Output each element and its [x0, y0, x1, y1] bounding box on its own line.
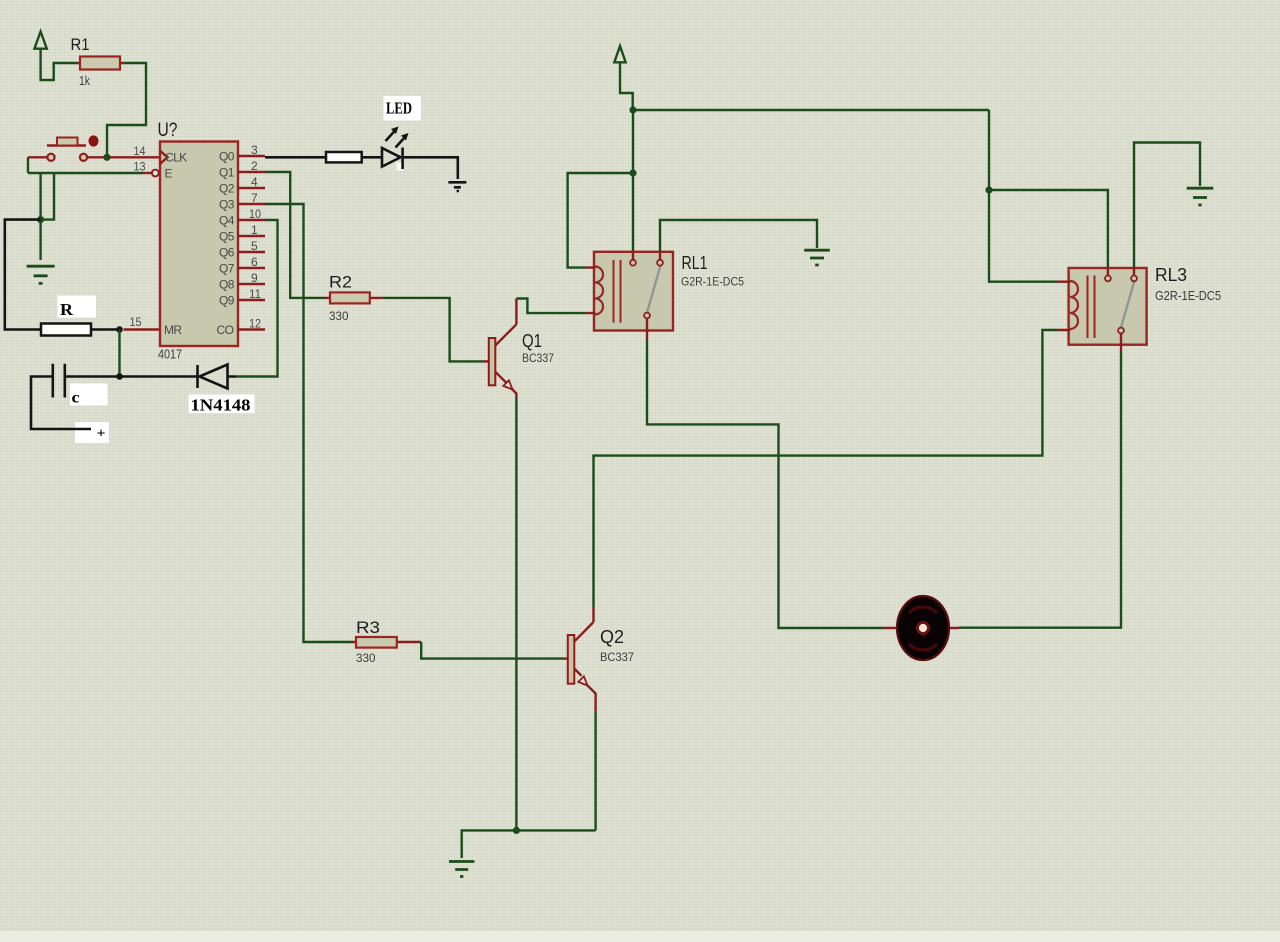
wire E stub — [143, 172, 152, 174]
wire Q2 emitter down — [594, 712, 596, 830]
resistor (LED series) — [326, 152, 362, 162]
wire to RL3 contact — [989, 190, 1108, 268]
wire RL3 coil bottom to Q2 collector — [594, 330, 1059, 607]
node junction cap/diode — [116, 373, 123, 380]
wire RL1 common to motor — [647, 339, 883, 628]
pin Q2 name — [219, 182, 235, 196]
svg-text:BC337: BC337 — [600, 650, 634, 664]
power symbol P2 (+V arrow) — [614, 46, 632, 110]
pin MR name — [164, 323, 182, 337]
pin CO name — [217, 323, 234, 337]
push button SW1 — [28, 138, 107, 161]
relay RL1 G2R-1E-DC5 — [585, 252, 744, 339]
pin CLK name — [165, 151, 187, 165]
LED D2 — [382, 127, 409, 171]
svg-text:LED: LED — [386, 99, 412, 118]
pin number 6 — [251, 255, 258, 269]
svg-text:10: 10 — [249, 207, 261, 221]
svg-text:1N4148: 1N4148 — [191, 396, 251, 415]
svg-text:6: 6 — [251, 255, 258, 269]
wire MR junction down to cap junction — [118, 330, 120, 377]
label R — [60, 300, 74, 319]
wire CLK pin 14 — [107, 156, 160, 158]
pin Q1 name — [219, 166, 235, 180]
node junction R/MR — [116, 326, 123, 333]
pin Q4 name — [219, 214, 235, 228]
pin number 12 — [249, 317, 261, 331]
pin Q9 name — [219, 294, 235, 308]
svg-text:G2R-1E-DC5: G2R-1E-DC5 — [1155, 289, 1221, 303]
ground (LED, black) — [448, 182, 466, 191]
resistor R2 — [265, 172, 383, 323]
label box + — [75, 422, 109, 443]
svg-text:13: 13 — [134, 160, 146, 174]
transistor Q1 BC337 — [484, 299, 555, 398]
svg-text:CO: CO — [217, 323, 234, 337]
resistor R3 — [265, 204, 421, 665]
pin number 1 — [251, 223, 258, 237]
relay RL3 G2R-1E-DC5 — [1058, 265, 1221, 351]
pin number 13 — [134, 160, 146, 174]
label LED — [386, 99, 412, 118]
svg-text:Q1: Q1 — [219, 166, 235, 180]
svg-text:2: 2 — [251, 159, 258, 173]
pin E name — [165, 167, 173, 181]
svg-text:MR: MR — [164, 323, 182, 337]
label box 1N4148 — [189, 395, 255, 414]
svg-text:12: 12 — [249, 317, 261, 331]
svg-text:CLK: CLK — [165, 151, 187, 165]
svg-text:330: 330 — [329, 309, 349, 323]
wire R3 to Q2 base — [421, 642, 564, 659]
label 1N4148 — [191, 396, 251, 415]
capacitor C — [31, 364, 120, 429]
svg-text:R2: R2 — [329, 273, 352, 292]
pin Q8 name — [219, 278, 235, 292]
wire R2 to Q1 base — [383, 298, 484, 362]
svg-text:U?: U? — [158, 120, 178, 141]
wire rail down to RL1 — [632, 110, 634, 173]
svg-text:BC337: BC337 — [522, 351, 554, 365]
svg-text:E: E — [165, 167, 173, 181]
svg-text:1: 1 — [251, 223, 258, 237]
power symbol P1 (top-left +V arrow) — [34, 32, 77, 81]
svg-text:Q5: Q5 — [219, 230, 235, 244]
svg-text:Q3: Q3 — [219, 198, 235, 212]
IC clock wedge — [160, 151, 168, 164]
svg-text:1k: 1k — [79, 73, 90, 88]
svg-text:R: R — [60, 300, 74, 319]
svg-text:4017: 4017 — [158, 347, 182, 362]
pin number 15 — [130, 315, 142, 329]
label box LED — [384, 96, 422, 121]
svg-text:R3: R3 — [356, 618, 380, 637]
wire Q0 to LED resistor (black) — [265, 156, 326, 159]
ground (bottom) — [449, 862, 474, 877]
pin Q7 name — [219, 262, 235, 276]
pin number 5 — [251, 239, 258, 253]
svg-text:RL1: RL1 — [682, 253, 708, 273]
IC U1 4017 body — [158, 120, 239, 362]
resistor R (timing) — [41, 324, 120, 336]
svg-text:Q2: Q2 — [600, 627, 624, 647]
svg-text:330: 330 — [356, 651, 376, 665]
svg-text:G2R-1E-DC5: G2R-1E-DC5 — [681, 275, 744, 289]
pin number 14 — [134, 144, 146, 158]
wire RL3 common to motor — [959, 351, 1121, 628]
svg-text:14: 14 — [134, 144, 146, 158]
svg-text:Q0: Q0 — [219, 150, 235, 164]
wire RL3 NO contact to ground — [1134, 143, 1200, 269]
wire R1 to CLK junction — [107, 63, 146, 157]
label + — [97, 427, 106, 442]
svg-text:RL3: RL3 — [1155, 265, 1187, 285]
button indicator dot — [89, 135, 99, 146]
svg-text:Q4: Q4 — [219, 214, 235, 228]
svg-text:Q1: Q1 — [522, 331, 542, 351]
wire junction to ground — [39, 220, 41, 260]
svg-text:Q8: Q8 — [219, 278, 235, 292]
label box R — [58, 296, 97, 318]
svg-text:Q6: Q6 — [219, 246, 235, 260]
IC right pin stubs Q0-Q9,CO — [238, 156, 265, 330]
svg-text:4: 4 — [251, 175, 258, 189]
node junction bottom rail — [513, 827, 520, 834]
pin Q5 name — [219, 230, 235, 244]
wire button to E line — [28, 157, 143, 173]
svg-text:+: + — [97, 427, 106, 442]
wire E line drops — [41, 173, 54, 220]
wire battery loop (black) — [5, 220, 41, 330]
wire resistor to LED — [362, 156, 382, 159]
svg-text:Q7: Q7 — [219, 262, 235, 276]
resistor R1 — [71, 35, 124, 88]
pin Q0 name — [219, 150, 235, 164]
pin number 7 — [251, 191, 258, 205]
IC enable bubble — [152, 170, 159, 177]
label box c — [70, 384, 108, 406]
node junction rail/RL1 — [629, 106, 636, 113]
svg-text:R1: R1 — [71, 35, 90, 54]
wire Q1 collector to RL1 coil — [516, 299, 585, 314]
pin number 2 — [251, 159, 258, 173]
wire rail to RL3 branch — [989, 110, 1058, 282]
transistor Q2 BC337 — [564, 607, 634, 712]
wire MR pin 15 — [124, 328, 161, 330]
svg-text:5: 5 — [251, 239, 258, 253]
svg-text:Q2: Q2 — [219, 182, 235, 196]
node junction button/R1/CLK — [103, 154, 110, 161]
node junction ground/battery — [37, 216, 44, 223]
svg-text:3: 3 — [251, 143, 258, 157]
wire Q1 emitter down — [515, 398, 517, 831]
wire LED to ground (black) — [404, 157, 458, 179]
ground (RL1) — [804, 250, 830, 265]
pin number 9 — [251, 271, 258, 285]
pin Q3 name — [219, 198, 235, 212]
pin number 10 — [249, 207, 261, 221]
svg-text:Q9: Q9 — [219, 294, 235, 308]
pin number 11 — [249, 287, 261, 301]
wire top power rail — [633, 109, 989, 111]
wire to RL1 contact — [632, 173, 634, 252]
node junction RL1 coil/contact — [629, 169, 636, 176]
label c — [72, 390, 80, 407]
svg-text:c: c — [72, 390, 80, 407]
motor M1 — [883, 596, 959, 660]
diode D1 1N4148 — [120, 365, 237, 389]
ground (RL3) — [1187, 188, 1214, 205]
wire diode to Q4 — [236, 220, 278, 377]
pin Q6 name — [219, 246, 235, 260]
ground (button) — [27, 266, 55, 283]
svg-text:11: 11 — [249, 287, 261, 301]
wire bottom rail — [462, 830, 596, 858]
pin number 4 — [251, 175, 258, 189]
wire to RL1 coil top — [568, 173, 633, 268]
svg-text:15: 15 — [130, 315, 142, 329]
pin number 3 — [251, 143, 258, 157]
svg-text:7: 7 — [251, 191, 258, 205]
node junction RL3 contact branch — [985, 186, 992, 193]
svg-text:9: 9 — [251, 271, 258, 285]
wire RL1 NO contact to ground — [660, 220, 817, 252]
